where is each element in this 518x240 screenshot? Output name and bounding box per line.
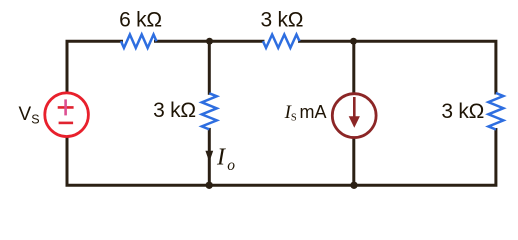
svg-text:mA: mA xyxy=(300,102,327,122)
svg-text:VS: VS xyxy=(19,104,40,126)
svg-text:3 kΩ: 3 kΩ xyxy=(153,99,196,122)
svg-text:IS: IS xyxy=(284,102,297,124)
svg-text:3 kΩ: 3 kΩ xyxy=(261,8,304,31)
svg-text:6 kΩ: 6 kΩ xyxy=(119,8,162,31)
svg-text:Io: Io xyxy=(216,145,235,175)
svg-text:3 kΩ: 3 kΩ xyxy=(441,100,484,123)
